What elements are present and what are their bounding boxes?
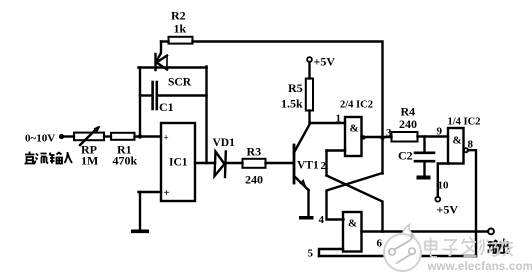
wire R4 to pin9 <box>418 135 449 137</box>
wire top feedback rail <box>139 66 207 69</box>
wire gate output to R4 <box>362 136 392 138</box>
wire pin6 output rail <box>362 230 489 232</box>
capacitor C2 <box>415 137 434 176</box>
potentiometer RP 1M <box>74 126 104 145</box>
resistor R1 470k <box>111 133 135 140</box>
wire pin5 <box>319 249 343 256</box>
watermark logo circle elecfans <box>384 225 421 272</box>
ground C2 <box>417 176 431 180</box>
nand gate 2/4 IC2 <box>345 117 362 156</box>
svg-text:C1: C1 <box>159 100 174 114</box>
node: 0~10V input terminal <box>59 134 64 139</box>
node output junction <box>380 135 385 140</box>
svg-text:9: 9 <box>437 126 443 138</box>
pin 8 output bubble <box>464 148 468 152</box>
wire RP to R1 <box>104 135 111 137</box>
nand gate 3/4 IC2 bottom <box>343 212 362 252</box>
svg-text:470k: 470k <box>113 154 138 168</box>
wire R2 to latch output node <box>193 42 383 138</box>
node output terminal ring <box>488 229 494 235</box>
wire pin10 to +5V <box>438 164 449 197</box>
svg-text:4: 4 <box>319 214 325 226</box>
wire R1 to IC1 inverting input, node A <box>135 135 162 137</box>
wire C1 mid rail right <box>158 94 207 96</box>
nand gate 1/4 IC2 <box>448 128 464 164</box>
wire pin2 stub <box>327 149 346 151</box>
ground VT1 <box>299 216 314 220</box>
node gate output dot <box>361 135 365 139</box>
svg-text:R3: R3 <box>247 145 262 159</box>
wire diagonal output to pin4 <box>327 173 383 220</box>
svg-text:1M: 1M <box>81 154 98 168</box>
+5V terminal bottom <box>435 197 440 202</box>
svg-text:&: & <box>453 135 462 147</box>
resistor R5 1.5k <box>306 79 313 111</box>
svg-text:C2: C2 <box>398 149 413 163</box>
capacitor C1 <box>153 82 157 109</box>
svg-text:VD1: VD1 <box>213 137 236 149</box>
watermark text 电子发烧友 (drawn strokes) <box>425 237 513 257</box>
wire R5 to pin1 and collector node <box>310 111 346 124</box>
wire pin2 down <box>325 151 327 176</box>
svg-text:10: 10 <box>438 180 450 192</box>
svg-text:2: 2 <box>321 160 327 172</box>
node A junction <box>138 134 142 138</box>
svg-text:1.5k: 1.5k <box>281 97 303 111</box>
svg-text:3: 3 <box>386 127 392 139</box>
wire IC1 plus input <box>139 191 162 193</box>
wire VD1 to R3 <box>227 162 243 164</box>
wire feedback right vertical to IC1 output <box>205 67 207 164</box>
transistor VT1 <box>294 125 310 191</box>
wire diagonal pin2 path to pin6 rail <box>327 176 383 232</box>
svg-text:www.elecfans.com: www.elecfans.com <box>427 261 532 273</box>
wire R3 to VT1 base <box>266 162 294 164</box>
label 直流输入 (DC input, drawn strokes) <box>25 152 73 164</box>
resistor R3 240 <box>243 159 266 168</box>
svg-text:2/4 IC2: 2/4 IC2 <box>340 100 373 111</box>
svg-text:SCR: SCR <box>168 77 192 89</box>
wire IC1 output <box>195 162 215 164</box>
svg-text:+: + <box>164 133 169 143</box>
wire VT1 emitter to ground <box>307 190 309 216</box>
wire +5V to R5 <box>308 62 310 79</box>
svg-text:1k: 1k <box>174 22 187 36</box>
wire cross coupling: output down <box>381 138 383 174</box>
svg-text:R2: R2 <box>171 9 186 23</box>
svg-text:&: & <box>350 123 359 135</box>
resistor R2 1k <box>169 37 193 44</box>
wire SCR gate to R2 <box>157 42 162 62</box>
svg-text:1/4 IC2: 1/4 IC2 <box>448 117 481 128</box>
svg-text:240: 240 <box>399 117 417 131</box>
svg-text:+: + <box>164 187 170 199</box>
diode VD1 <box>215 152 226 178</box>
wire node A up to feedback rails <box>139 68 141 137</box>
svg-text:+5V: +5V <box>314 55 336 69</box>
svg-text:1: 1 <box>336 113 342 125</box>
op-amp IC1 box <box>161 123 195 201</box>
wire to ground from plus input <box>139 192 141 230</box>
svg-text:5: 5 <box>308 248 314 260</box>
svg-text:R5: R5 <box>288 81 303 95</box>
wire C1 mid rail left <box>140 94 152 96</box>
resistor R4 240 <box>392 132 418 142</box>
+5V terminal top <box>307 57 312 62</box>
svg-text:&: & <box>348 218 357 230</box>
wire input to RP <box>63 135 74 137</box>
svg-text:0~10V: 0~10V <box>25 133 55 145</box>
wire R2 left lead <box>161 40 169 42</box>
thyristor SCR on top rail <box>156 54 168 70</box>
wire pin8 output down to rail <box>468 150 476 256</box>
svg-text:VT1: VT1 <box>297 160 319 172</box>
svg-text:+5V: +5V <box>437 203 459 217</box>
svg-text:8: 8 <box>468 139 474 151</box>
ground IC1 <box>131 230 149 234</box>
svg-text:6: 6 <box>377 238 383 250</box>
svg-text:240: 240 <box>245 173 263 187</box>
label 输出 (output, drawn strokes) <box>488 239 509 254</box>
svg-text:IC1: IC1 <box>169 157 188 169</box>
wire bottom rail pin5 to output column <box>319 255 476 257</box>
